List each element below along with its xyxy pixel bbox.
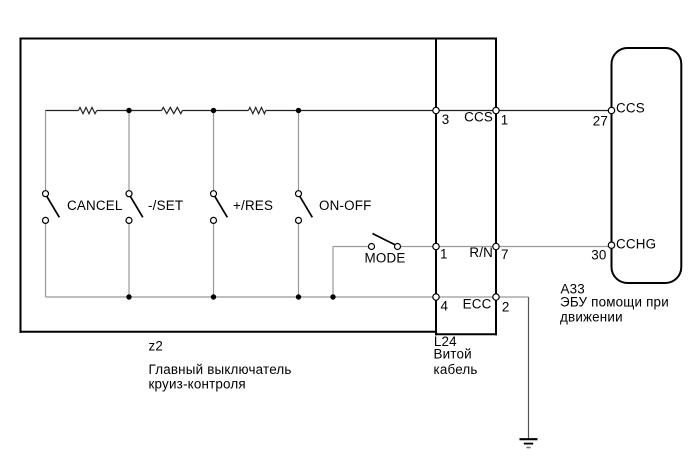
svg-text:1: 1 <box>501 113 509 128</box>
svg-text:4: 4 <box>441 299 449 314</box>
svg-text:ECC: ECC <box>463 297 492 312</box>
svg-text:30: 30 <box>591 247 606 262</box>
svg-text:Витой: Витой <box>434 347 472 362</box>
svg-text:CANCEL: CANCEL <box>67 198 123 213</box>
svg-text:27: 27 <box>593 114 608 129</box>
svg-text:1: 1 <box>440 247 448 262</box>
svg-text:3: 3 <box>442 112 450 127</box>
svg-text:ON-OFF: ON-OFF <box>319 198 372 213</box>
svg-text:+/RES: +/RES <box>233 198 273 213</box>
svg-text:2: 2 <box>502 300 510 315</box>
svg-text:кабель: кабель <box>434 362 478 377</box>
svg-text:CCS: CCS <box>464 110 493 125</box>
svg-text:R/N: R/N <box>469 245 493 260</box>
svg-text:-/SET: -/SET <box>148 198 183 213</box>
svg-text:Главный выключатель: Главный выключатель <box>149 362 292 377</box>
svg-text:CCHG: CCHG <box>616 237 656 252</box>
svg-text:круиз-контроля: круиз-контроля <box>149 377 246 392</box>
svg-text:движении: движении <box>560 310 623 325</box>
svg-text:ЭБУ помощи при: ЭБУ помощи при <box>560 295 669 310</box>
svg-text:7: 7 <box>501 247 509 262</box>
svg-text:CCS: CCS <box>616 101 645 116</box>
svg-text:z2: z2 <box>149 339 164 354</box>
svg-text:MODE: MODE <box>365 251 406 266</box>
